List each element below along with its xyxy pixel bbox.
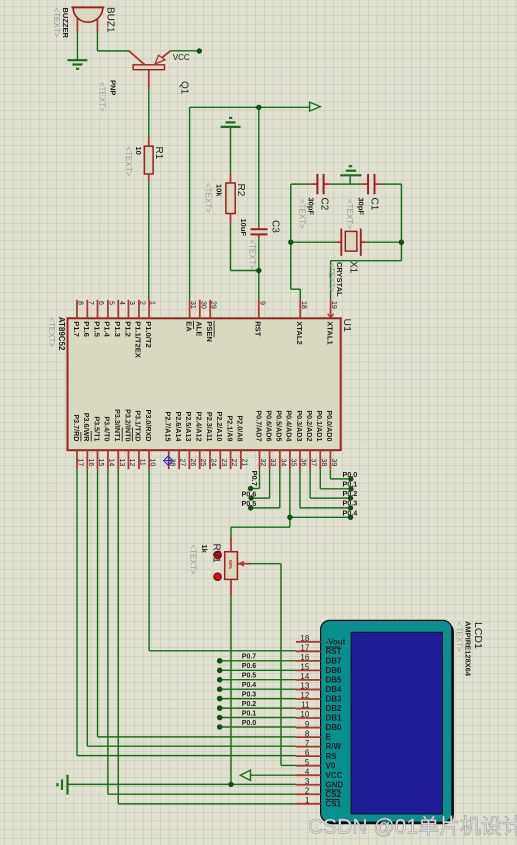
svg-text:16: 16 (87, 459, 94, 467)
svg-text:P0.4: P0.4 (242, 682, 257, 689)
svg-text:19: 19 (330, 301, 337, 309)
svg-text:P0.4/AD4: P0.4/AD4 (285, 410, 294, 441)
svg-text:P2.1/A9: P2.1/A9 (225, 416, 234, 442)
svg-text:3: 3 (128, 301, 135, 305)
svg-text:VCC: VCC (173, 53, 190, 62)
svg-text:P0.6/AD6: P0.6/AD6 (264, 410, 273, 441)
svg-text:P3.4/T0: P3.4/T0 (103, 416, 112, 441)
svg-text:P0.3/AD3: P0.3/AD3 (295, 410, 304, 441)
svg-text:35: 35 (289, 459, 296, 467)
svg-text:17: 17 (300, 644, 309, 653)
svg-text:P1.3: P1.3 (113, 321, 122, 337)
svg-text:33: 33 (269, 459, 276, 467)
svg-text:P0.1: P0.1 (242, 710, 257, 717)
svg-text:P2.6/A14: P2.6/A14 (174, 412, 183, 442)
svg-text:9: 9 (305, 720, 310, 729)
svg-text:10uF: 10uF (239, 219, 248, 237)
svg-text:13: 13 (118, 459, 125, 467)
svg-text:CSDN @01单片机设计: CSDN @01单片机设计 (308, 816, 517, 839)
svg-text:6: 6 (97, 301, 104, 305)
svg-text:8: 8 (305, 729, 310, 738)
svg-text:P0.5/AD5: P0.5/AD5 (275, 410, 284, 441)
svg-text:AMPIRE128X64: AMPIRE128X64 (464, 621, 473, 677)
svg-text:P0.5: P0.5 (242, 499, 257, 508)
svg-text:CS1: CS1 (326, 799, 342, 808)
svg-text:X1: X1 (348, 261, 359, 274)
svg-text:P1.1/T2EX: P1.1/T2EX (134, 321, 143, 358)
svg-text:P0.3: P0.3 (242, 691, 257, 698)
svg-text:12: 12 (300, 691, 309, 700)
svg-text:P1.5: P1.5 (92, 321, 101, 337)
svg-text:1: 1 (149, 301, 156, 305)
svg-text:C1: C1 (369, 198, 380, 211)
svg-text:<TEXT>: <TEXT> (98, 82, 107, 112)
svg-text:32: 32 (259, 459, 266, 467)
svg-text:31: 31 (189, 301, 196, 309)
svg-text:34: 34 (279, 459, 286, 467)
svg-text:7: 7 (305, 739, 310, 748)
svg-text:PSEN: PSEN (205, 321, 214, 342)
svg-text:14: 14 (107, 459, 114, 467)
svg-text:<TEXT>: <TEXT> (204, 183, 213, 213)
svg-text:XTAL1: XTAL1 (325, 321, 334, 345)
svg-text:10k: 10k (215, 184, 224, 197)
svg-text:<TEXT>: <TEXT> (248, 240, 257, 270)
svg-text:P0.6: P0.6 (242, 489, 257, 498)
svg-text:13: 13 (300, 682, 309, 691)
svg-text:4: 4 (118, 301, 125, 305)
svg-text:4: 4 (305, 767, 310, 776)
svg-text:38: 38 (320, 459, 327, 467)
svg-text:P0.5: P0.5 (242, 673, 257, 680)
svg-text:DB0: DB0 (326, 723, 343, 732)
svg-text:P3.2/INT0: P3.2/INT0 (123, 409, 132, 441)
svg-text:22: 22 (230, 459, 237, 467)
svg-text:XTAL2: XTAL2 (295, 321, 304, 345)
svg-text:11: 11 (301, 701, 310, 710)
svg-text:BUZ1: BUZ1 (105, 7, 116, 33)
svg-text:50%: 50% (228, 560, 233, 569)
svg-text:6: 6 (305, 748, 310, 757)
svg-text:11: 11 (138, 459, 145, 466)
svg-text:GND: GND (326, 780, 344, 789)
svg-text:P2.7/A15: P2.7/A15 (164, 412, 173, 442)
svg-text:P3.3/INT1: P3.3/INT1 (113, 409, 122, 441)
svg-text:DB5: DB5 (326, 676, 343, 685)
svg-text:P1.0/T2: P1.0/T2 (144, 321, 153, 348)
svg-text:EA: EA (184, 321, 193, 332)
svg-text:P0.7: P0.7 (242, 654, 257, 661)
svg-text:18: 18 (300, 634, 309, 643)
svg-text:DB3: DB3 (326, 695, 343, 704)
svg-text:39: 39 (330, 459, 337, 467)
svg-text:26: 26 (189, 459, 196, 467)
svg-text:1: 1 (305, 796, 310, 805)
svg-text:P3.0/RXD: P3.0/RXD (144, 410, 153, 442)
svg-text:29: 29 (210, 301, 217, 309)
svg-text:DB7: DB7 (326, 656, 343, 665)
svg-text:PNP: PNP (109, 80, 118, 95)
svg-text:P3.1/TXD: P3.1/TXD (134, 410, 143, 441)
svg-text:V0: V0 (326, 761, 336, 770)
svg-text:VCC: VCC (326, 771, 343, 780)
svg-text:RST: RST (254, 321, 263, 337)
svg-text:C2: C2 (319, 198, 330, 211)
svg-text:8: 8 (77, 301, 84, 305)
svg-text:17: 17 (77, 459, 84, 467)
svg-text:27: 27 (179, 459, 186, 467)
svg-text:DB6: DB6 (326, 666, 343, 675)
svg-text:<TEXT>: <TEXT> (47, 317, 56, 347)
svg-text:1k: 1k (200, 545, 209, 554)
svg-text:18: 18 (300, 301, 307, 309)
svg-text:P1.6: P1.6 (82, 321, 91, 337)
svg-text:<TEXT>: <TEXT> (327, 263, 336, 293)
svg-text:12: 12 (128, 459, 135, 467)
svg-text:P0.0: P0.0 (343, 470, 358, 479)
svg-text:10: 10 (300, 710, 309, 719)
svg-text:P0.3: P0.3 (343, 499, 358, 508)
svg-text:R/W: R/W (326, 742, 342, 751)
svg-text:P2.5/A13: P2.5/A13 (184, 412, 193, 442)
svg-text:R1: R1 (153, 147, 164, 160)
svg-text:15: 15 (300, 663, 309, 672)
svg-text:-Vout: -Vout (326, 637, 346, 646)
svg-text:P0.6: P0.6 (242, 663, 257, 670)
svg-text:2: 2 (305, 786, 310, 795)
svg-text:P0.0: P0.0 (242, 720, 257, 727)
svg-text:P2.2/A10: P2.2/A10 (215, 412, 224, 442)
svg-text:30pF: 30pF (307, 198, 316, 216)
svg-text:P0.7/AD7: P0.7/AD7 (254, 410, 263, 441)
svg-text:7: 7 (87, 301, 94, 305)
svg-text:5: 5 (305, 758, 310, 767)
svg-text:P1.7: P1.7 (72, 321, 81, 337)
svg-text:<TEXT>: <TEXT> (52, 8, 61, 38)
svg-text:Q1: Q1 (179, 81, 190, 95)
svg-text:DB2: DB2 (326, 704, 343, 713)
svg-text:P3.6/WR: P3.6/WR (82, 413, 91, 443)
svg-text:30: 30 (199, 301, 206, 309)
svg-text:DB1: DB1 (326, 714, 343, 723)
svg-text:<TEXT>: <TEXT> (455, 622, 464, 652)
svg-text:<TEXT>: <TEXT> (345, 199, 354, 229)
svg-text:5: 5 (107, 301, 114, 305)
svg-text:P2.4/A12: P2.4/A12 (195, 412, 204, 442)
svg-text:C3: C3 (270, 220, 281, 233)
svg-text:14: 14 (300, 672, 309, 681)
svg-text:E: E (326, 733, 332, 742)
svg-text:P1.4: P1.4 (103, 321, 112, 337)
svg-text:U1: U1 (341, 319, 353, 333)
svg-text:10: 10 (149, 459, 156, 467)
svg-text:<TEXT>: <TEXT> (124, 147, 133, 177)
svg-text:15: 15 (97, 459, 104, 467)
svg-text:P1.2: P1.2 (123, 321, 132, 337)
svg-text:24: 24 (210, 459, 217, 467)
svg-text:RV1: RV1 (211, 544, 222, 564)
svg-text:P0.2/AD2: P0.2/AD2 (305, 410, 314, 441)
svg-text:P0.4: P0.4 (343, 508, 358, 517)
svg-text:36: 36 (300, 459, 307, 467)
svg-text:DB4: DB4 (326, 685, 343, 694)
svg-text:RST: RST (326, 647, 342, 656)
svg-text:R2: R2 (235, 184, 246, 197)
svg-text:10: 10 (134, 147, 143, 155)
svg-text:P3.5/T1: P3.5/T1 (92, 416, 101, 441)
svg-text:25: 25 (199, 459, 206, 467)
svg-text:<TEXT>: <TEXT> (189, 545, 198, 575)
svg-text:ALE: ALE (195, 321, 204, 336)
svg-text:2: 2 (138, 301, 145, 305)
svg-text:3: 3 (305, 777, 310, 786)
svg-text:P0.1: P0.1 (343, 480, 358, 489)
svg-text:<TEXT>: <TEXT> (298, 199, 307, 229)
svg-text:AT89C52: AT89C52 (57, 317, 66, 351)
svg-text:21: 21 (240, 459, 247, 467)
svg-text:P2.3/A11: P2.3/A11 (205, 412, 214, 442)
svg-text:P3.7/RD: P3.7/RD (72, 414, 81, 441)
svg-text:RS: RS (326, 752, 338, 761)
svg-text:23: 23 (220, 459, 227, 467)
svg-text:BUZZER: BUZZER (61, 8, 70, 39)
svg-text:16: 16 (300, 653, 309, 662)
svg-text:30pF: 30pF (357, 198, 366, 216)
svg-text:LCD1: LCD1 (472, 622, 484, 649)
svg-text:P2.0/A8: P2.0/A8 (236, 416, 245, 442)
svg-text:P0.2: P0.2 (343, 489, 358, 498)
svg-text:P0.2: P0.2 (242, 701, 257, 708)
svg-text:37: 37 (310, 459, 317, 467)
svg-text:P0.1/AD1: P0.1/AD1 (315, 410, 324, 441)
svg-text:CS2: CS2 (326, 790, 342, 799)
svg-text:9: 9 (258, 301, 265, 305)
svg-text:P0.7: P0.7 (250, 471, 259, 486)
svg-text:P0.0/AD0: P0.0/AD0 (325, 410, 334, 441)
